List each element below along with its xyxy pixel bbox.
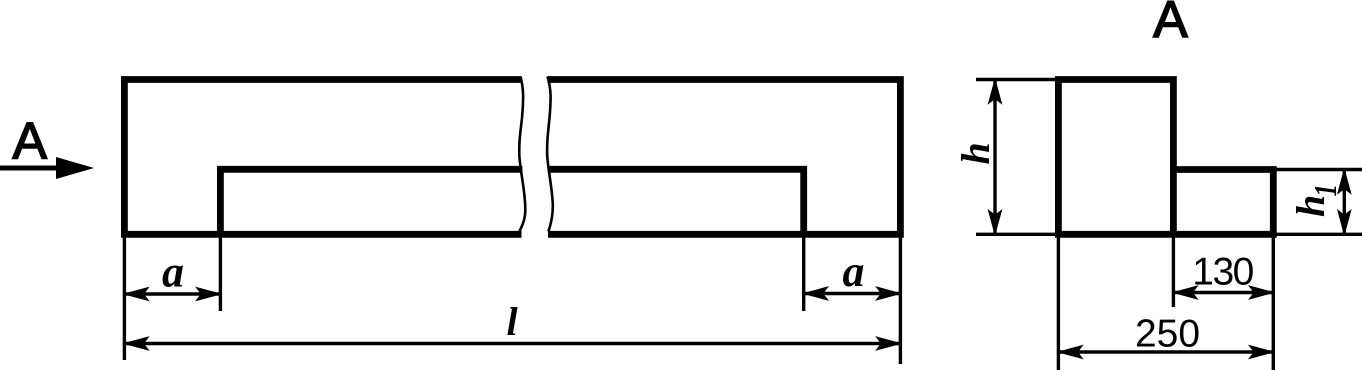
extension line below notch left: [219, 237, 222, 311]
svg-text:h: h: [953, 142, 998, 164]
dimension 250: [1058, 346, 1273, 359]
svg-text:A: A: [1153, 0, 1188, 49]
extension line below beam left end: [123, 237, 126, 360]
svg-text:250: 250: [1135, 313, 1200, 356]
beam right segment outline: [548, 80, 901, 235]
dimension h: [989, 80, 1002, 235]
dimension 130: [1173, 286, 1273, 299]
extension line h1 top: [1276, 168, 1362, 171]
section internal edge (tall part right side): [1170, 170, 1177, 235]
extension line below beam right end: [899, 237, 902, 364]
svg-text:h: h: [1288, 195, 1333, 217]
extension line below section right: [1272, 237, 1275, 370]
dimension l: [124, 337, 900, 350]
beam notch line right segment: [550, 169, 804, 233]
section L-profile outline: [1058, 80, 1273, 235]
break line left: [519, 77, 525, 232]
dimension h1: [1338, 170, 1351, 235]
extension line h bottom: [976, 233, 1056, 236]
break line right: [547, 77, 553, 232]
extension line h top: [976, 78, 1056, 81]
svg-text:130: 130: [1192, 251, 1253, 294]
extension line below section left: [1057, 237, 1060, 370]
view-direction arrow A (shaft): [0, 157, 94, 179]
extension line below section middle: [1172, 237, 1175, 307]
extension line h1 bottom: [1276, 233, 1362, 236]
label h1: [1288, 184, 1344, 217]
svg-text:a: a: [162, 248, 184, 297]
svg-text:A: A: [12, 113, 47, 171]
extension line below notch right: [802, 237, 805, 311]
beam left segment outline: [124, 80, 521, 235]
dimension a (left): [124, 288, 220, 301]
svg-text:1: 1: [1308, 184, 1344, 196]
svg-text:l: l: [506, 299, 518, 344]
svg-text:a: a: [843, 247, 865, 296]
beam notch line left segment: [220, 169, 522, 233]
dimension a (right): [804, 287, 901, 300]
